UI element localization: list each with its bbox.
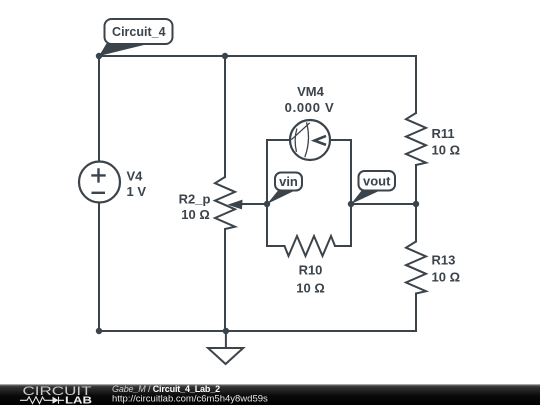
junction dot right rail at vout wire: [413, 201, 419, 207]
svg-text:V4: V4: [127, 169, 144, 184]
svg-text:LAB: LAB: [65, 395, 92, 405]
resistor R11: [406, 113, 426, 165]
svg-text:R10: R10: [299, 263, 323, 278]
wire: node vout to right rail: [351, 203, 416, 205]
wire: wiper to node vin: [241, 203, 267, 205]
wire: left rail bottom (V4 bottom terminal to bottom rail): [98, 203, 100, 332]
voltmeter VM4: [290, 120, 330, 160]
node label Circuit_4 callout: [99, 19, 173, 56]
svg-text:Gabe_M / Circuit_4_Lab_2: Gabe_M / Circuit_4_Lab_2: [112, 384, 220, 394]
resistor R10: [285, 236, 336, 256]
junction dot bottom left: [96, 328, 102, 334]
potentiometer R2_p: [215, 177, 235, 229]
wire: node vout down to R10 right lead: [335, 204, 351, 246]
wire: bottom rail: [99, 330, 416, 332]
wire: node vin down to R10 left lead: [267, 204, 285, 246]
resistor R13: [406, 242, 426, 294]
label R13 value: [432, 253, 461, 285]
wire: left rail top (node A to V4 top terminal): [98, 56, 100, 162]
junction dot top of R2_p branch: [222, 53, 228, 59]
svg-text:R2_p: R2_p: [179, 192, 211, 207]
wire: ground stub: [225, 331, 227, 348]
svg-text:R11: R11: [432, 126, 455, 141]
svg-text:1 V: 1 V: [127, 184, 147, 199]
node vin junction dot: [264, 201, 270, 207]
label V4 value: [127, 169, 147, 200]
label VM4 value: [285, 84, 335, 115]
ground: [208, 348, 243, 364]
svg-text:vin: vin: [279, 174, 298, 189]
wire: top rail from node A to top-right corner: [99, 55, 416, 57]
node A junction dot (top left): [96, 53, 102, 59]
svg-text:10 Ω: 10 Ω: [181, 207, 210, 222]
svg-text:Circuit_4: Circuit_4: [112, 25, 166, 39]
svg-text:10 Ω: 10 Ω: [296, 280, 325, 295]
footer bar: [0, 384, 540, 405]
node label vin callout: [267, 173, 302, 205]
svg-text:0.000 V: 0.000 V: [285, 100, 335, 115]
wire: R2_p branch top lead: [224, 56, 226, 177]
node label vout callout: [351, 171, 395, 204]
svg-text:R13: R13: [432, 253, 456, 268]
potentiometer R2_p wiper arrow: [228, 200, 243, 210]
voltage source V4: [79, 162, 120, 203]
svg-text:VM4: VM4: [297, 84, 325, 99]
wire: R2_p branch bottom lead: [224, 229, 226, 331]
wire: right rail bottom lead from R13: [415, 294, 417, 332]
label R10 value: [296, 263, 325, 296]
wire: right rail between R11 and R13: [415, 165, 417, 242]
wire: right rail top lead into R11: [415, 56, 417, 113]
junction dot ground: [223, 328, 229, 334]
svg-text:http://circuitlab.com/c6m5h4y8: http://circuitlab.com/c6m5h4y8wd59s: [112, 394, 268, 405]
label R11 value: [432, 126, 461, 158]
svg-text:vout: vout: [363, 174, 391, 189]
label R2_p value: [179, 192, 211, 222]
CircuitLab logo schematic glyph (resistor + diode): [20, 397, 64, 404]
node vout junction dot: [348, 201, 354, 207]
wire: node vin up to VM4 left terminal: [267, 140, 290, 204]
svg-text:10 Ω: 10 Ω: [432, 143, 461, 158]
wire: VM4 right terminal down to node vout: [330, 140, 351, 204]
svg-text:10 Ω: 10 Ω: [432, 270, 461, 285]
